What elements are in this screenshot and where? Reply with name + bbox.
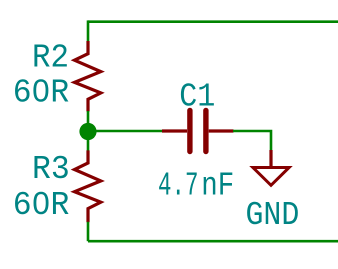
wire bottom horizontal — [88, 240, 338, 243]
ground symbol — [253, 168, 289, 186]
svg-text:4.7: 4.7 — [158, 167, 198, 205]
wire middle horizontal from junction to C1 — [94, 130, 163, 133]
svg-text:R3: R3 — [32, 150, 70, 188]
wire top horizontal — [88, 20, 338, 23]
capacitor C1 right pin — [209, 129, 234, 132]
mask dot inside zero of lower 60R — [38, 200, 44, 206]
wire left vertical lower segment — [87, 222, 90, 241]
capacitor C1 right plate — [203, 110, 208, 151]
resistor R2 — [75, 41, 101, 112]
wire left vertical upper segment — [87, 20, 90, 41]
ground pin — [269, 150, 272, 166]
svg-text:GND: GND — [245, 196, 299, 234]
svg-text:R2: R2 — [32, 38, 69, 76]
capacitor C1 left pin — [162, 129, 187, 132]
capacitor C1 left plate — [187, 110, 192, 151]
junction node — [79, 123, 96, 140]
svg-text:nF: nF — [201, 167, 234, 205]
mask dot inside zero of upper 60R — [38, 88, 44, 94]
wire left vertical middle segment — [87, 111, 90, 151]
svg-text:C1: C1 — [179, 78, 215, 116]
resistor R3 — [75, 150, 101, 222]
wire C1 to ground corner — [233, 131, 271, 151]
